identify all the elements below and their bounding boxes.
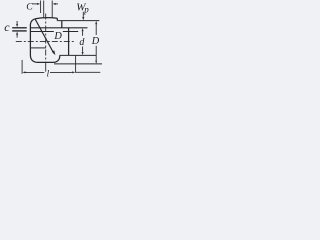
svg-text:c: c (4, 20, 10, 34)
svg-text:p: p (83, 5, 89, 15)
svg-text:D: D (53, 31, 62, 42)
svg-text:D: D (91, 36, 100, 47)
svg-text:C: C (26, 1, 33, 12)
